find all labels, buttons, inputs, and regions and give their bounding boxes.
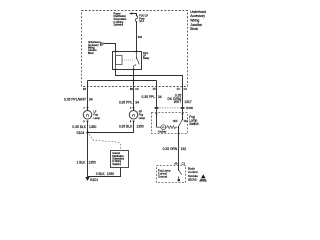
svg-text:34: 34 [89, 97, 93, 101]
svg-text:Distribution: Distribution [112, 155, 124, 158]
svg-text:1350: 1350 [136, 125, 144, 129]
svg-text:192: 192 [181, 147, 187, 151]
inline connector IP150 (right half pair) [180, 107, 184, 109]
svg-text:0.35 BLK: 0.35 BLK [72, 125, 86, 129]
svg-text:Systems: Systems [112, 163, 122, 166]
svg-text:10 A: 10 A [139, 20, 144, 23]
splice junction on output bus [133, 80, 135, 82]
splice S104 [86, 131, 88, 133]
svg-text:0.35 PPL: 0.35 PPL [119, 100, 133, 104]
svg-text:in Wiring: in Wiring [112, 160, 122, 163]
svg-text:3 BLK: 3 BLK [96, 172, 106, 176]
svg-text:1350: 1350 [89, 125, 97, 129]
wire: RF lamp ground to splice S104 [88, 122, 134, 133]
BCM input label [158, 169, 171, 179]
BCM internal switch to ground [178, 166, 180, 170]
relay coil [116, 52, 123, 70]
svg-text:S104: S104 [76, 131, 84, 135]
wire label: 0.35 BLK 1350 (LF ground) [72, 125, 96, 129]
svg-text:OFF: OFF [173, 120, 178, 123]
wire: connector into fog lamp switch [156, 109, 158, 127]
wire: arrow from power distribution to fuse [131, 14, 136, 16]
lamp E1: LF Fog Lamp [87, 107, 89, 109]
svg-text:Block: Block [88, 53, 94, 55]
dashed link between connector halves [159, 107, 179, 109]
svg-text:WHT: WHT [174, 100, 182, 104]
wire label: 0.35 DK GRN/WHT 1317 [168, 93, 192, 104]
svg-text:0.35 PPL: 0.35 PPL [142, 95, 156, 99]
connector symbol (double terminal arrows) [100, 42, 103, 46]
svg-text:0.35 PPL/WHT: 0.35 PPL/WHT [64, 97, 86, 101]
node: Underhood Accessory Wiring Junction Block feed label (left) [88, 41, 100, 55]
ground G101 [85, 177, 89, 181]
relay actuator dashed link [122, 59, 134, 61]
wire label: 0.35 PPL/WHT 34 [64, 97, 93, 101]
svg-text:A6: A6 [174, 162, 178, 166]
svg-text:Wiring: Wiring [88, 47, 95, 50]
svg-text:C3: C3 [182, 162, 186, 166]
svg-text:Lamp: Lamp [94, 117, 101, 120]
svg-text:Systems: Systems [114, 24, 124, 27]
switch blade OFF/ON [182, 119, 183, 120]
terminal nubs at switch box crossings [156, 113, 184, 135]
svg-text:Underhood: Underhood [88, 41, 100, 44]
junction block boundary (Underhood Accessory Wiring Junction Block, dashed) [82, 11, 188, 87]
svg-text:ON: ON [184, 120, 188, 123]
svg-text:(BCM): (BCM) [188, 177, 197, 181]
indicator lamp (Amber) inside switch [157, 126, 161, 128]
svg-text:Accessory: Accessory [88, 44, 99, 47]
wire: drop to LF fog lamp [87, 81, 89, 111]
node: Underhood Accessory Wiring Junction Block label (outside right) [190, 10, 206, 31]
cavity labels on junction block edge [83, 88, 187, 91]
svg-text:Relay: Relay [143, 57, 150, 60]
svg-text:34: 34 [158, 95, 162, 99]
svg-text:1350: 1350 [88, 161, 96, 165]
dashed reference link from S104 to ground distribution [89, 134, 121, 150]
relay terminals [115, 51, 138, 71]
fuse F1: FOG LP Fuse 10 A [135, 16, 138, 22]
wire label: 0.35 PPL 34 (switch feed) [142, 95, 162, 99]
svg-text:0.35 ORN: 0.35 ORN [163, 147, 178, 151]
lamp E2: RF Fog Lamp [133, 107, 135, 109]
fog lamp switch dashed box [152, 113, 188, 134]
wire: fuse to relay switch, circuit 640 [136, 22, 138, 52]
svg-text:Ground: Ground [158, 175, 168, 179]
BCM label [188, 167, 198, 182]
node: Ground Distribution reference box [111, 151, 129, 168]
wire: output bus [88, 80, 157, 82]
svg-text:1 BLK: 1 BLK [77, 161, 87, 165]
wire: drop to fog lamp switch indicator (F5) [156, 81, 158, 108]
wire label: 0.35 BLK 1350 (RF ground) [119, 125, 144, 129]
wire label: 1 BLK 1350 [77, 161, 96, 165]
node: Power Distribution reference text [114, 12, 128, 26]
inline connector IP150 (left half pair) [154, 107, 158, 109]
wire: switch common out [178, 127, 180, 134]
svg-text:Junction: Junction [88, 49, 97, 52]
relay switch contacts [134, 52, 140, 70]
svg-text:Lamp: Lamp [139, 117, 146, 120]
svg-text:34: 34 [135, 100, 139, 104]
svg-text:1317: 1317 [184, 100, 192, 104]
svg-text:IP150: IP150 [186, 106, 194, 110]
relay U1: FOG LP Relay box [113, 52, 142, 70]
svg-text:Amber: Amber [158, 130, 167, 134]
svg-text:1350: 1350 [107, 172, 115, 176]
wire label: 0.35 PPL 34 (RF) [119, 100, 139, 104]
pin labels A6 / C3 [174, 162, 185, 166]
wire: ground distribution box to G101 run, 3 BLK 1350 [88, 168, 121, 177]
svg-text:Schematics: Schematics [112, 158, 125, 161]
svg-text:Ground: Ground [112, 152, 120, 155]
resistor (zigzag) [166, 126, 178, 129]
wire: switch to BCM, 0.35 ORN 192 [178, 134, 180, 166]
svg-text:G101: G101 [90, 178, 98, 182]
svg-text:Switch: Switch [189, 122, 199, 126]
svg-text:0.35 BLK: 0.35 BLK [119, 125, 133, 129]
BCM dashed box [157, 166, 186, 183]
wire: relay coil low side to F3 (1317) [116, 70, 183, 108]
relay label [143, 52, 150, 60]
wire: LF lamp ground down to G101 [87, 122, 89, 177]
svg-text:640: 640 [138, 35, 143, 39]
svg-text:Block: Block [190, 27, 198, 31]
wire: feed to relay coil [103, 44, 115, 52]
serial data triangle symbol [199, 174, 207, 181]
wire: relay switch output down (circuit 34) [133, 70, 135, 111]
